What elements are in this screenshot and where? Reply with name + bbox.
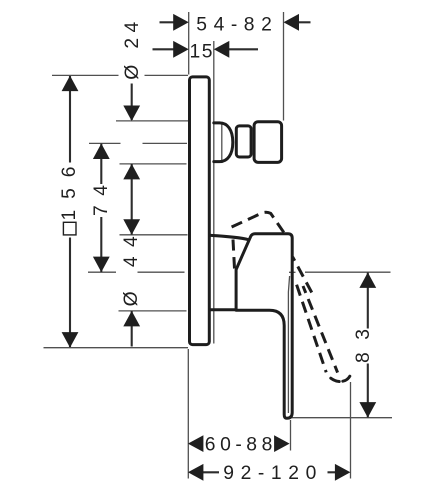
svg-text:60-88: 60-88 (205, 434, 272, 455)
svg-text:15: 15 (190, 41, 213, 62)
svg-text:156: 156 (59, 167, 80, 221)
